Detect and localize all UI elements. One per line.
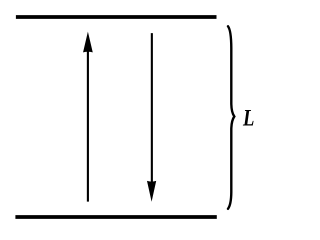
label L xyxy=(243,105,264,135)
wire up-arrow shaft xyxy=(87,50,89,202)
wire down-arrow shaft xyxy=(151,33,153,183)
up-arrow head xyxy=(83,32,93,53)
down-arrow head xyxy=(147,181,156,202)
bottom conductor line xyxy=(15,215,216,219)
brace for length L xyxy=(228,26,234,209)
top conductor line xyxy=(16,15,217,19)
